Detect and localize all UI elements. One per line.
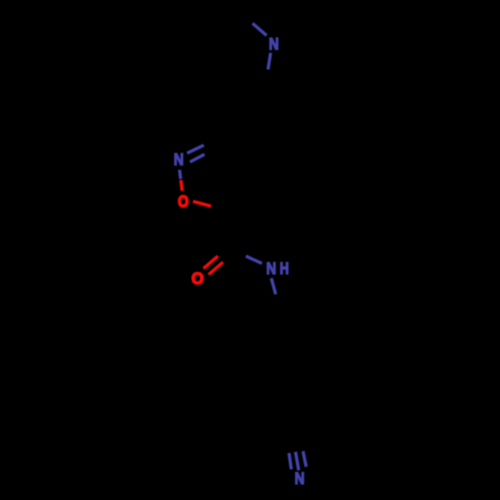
svg-text:N: N <box>269 35 279 53</box>
svg-text:N: N <box>174 151 184 169</box>
svg-text:O: O <box>191 271 203 288</box>
svg-text:O: O <box>178 193 189 211</box>
svg-text:H: H <box>280 261 289 279</box>
svg-text:N: N <box>266 260 276 278</box>
svg-text:N: N <box>295 470 305 488</box>
